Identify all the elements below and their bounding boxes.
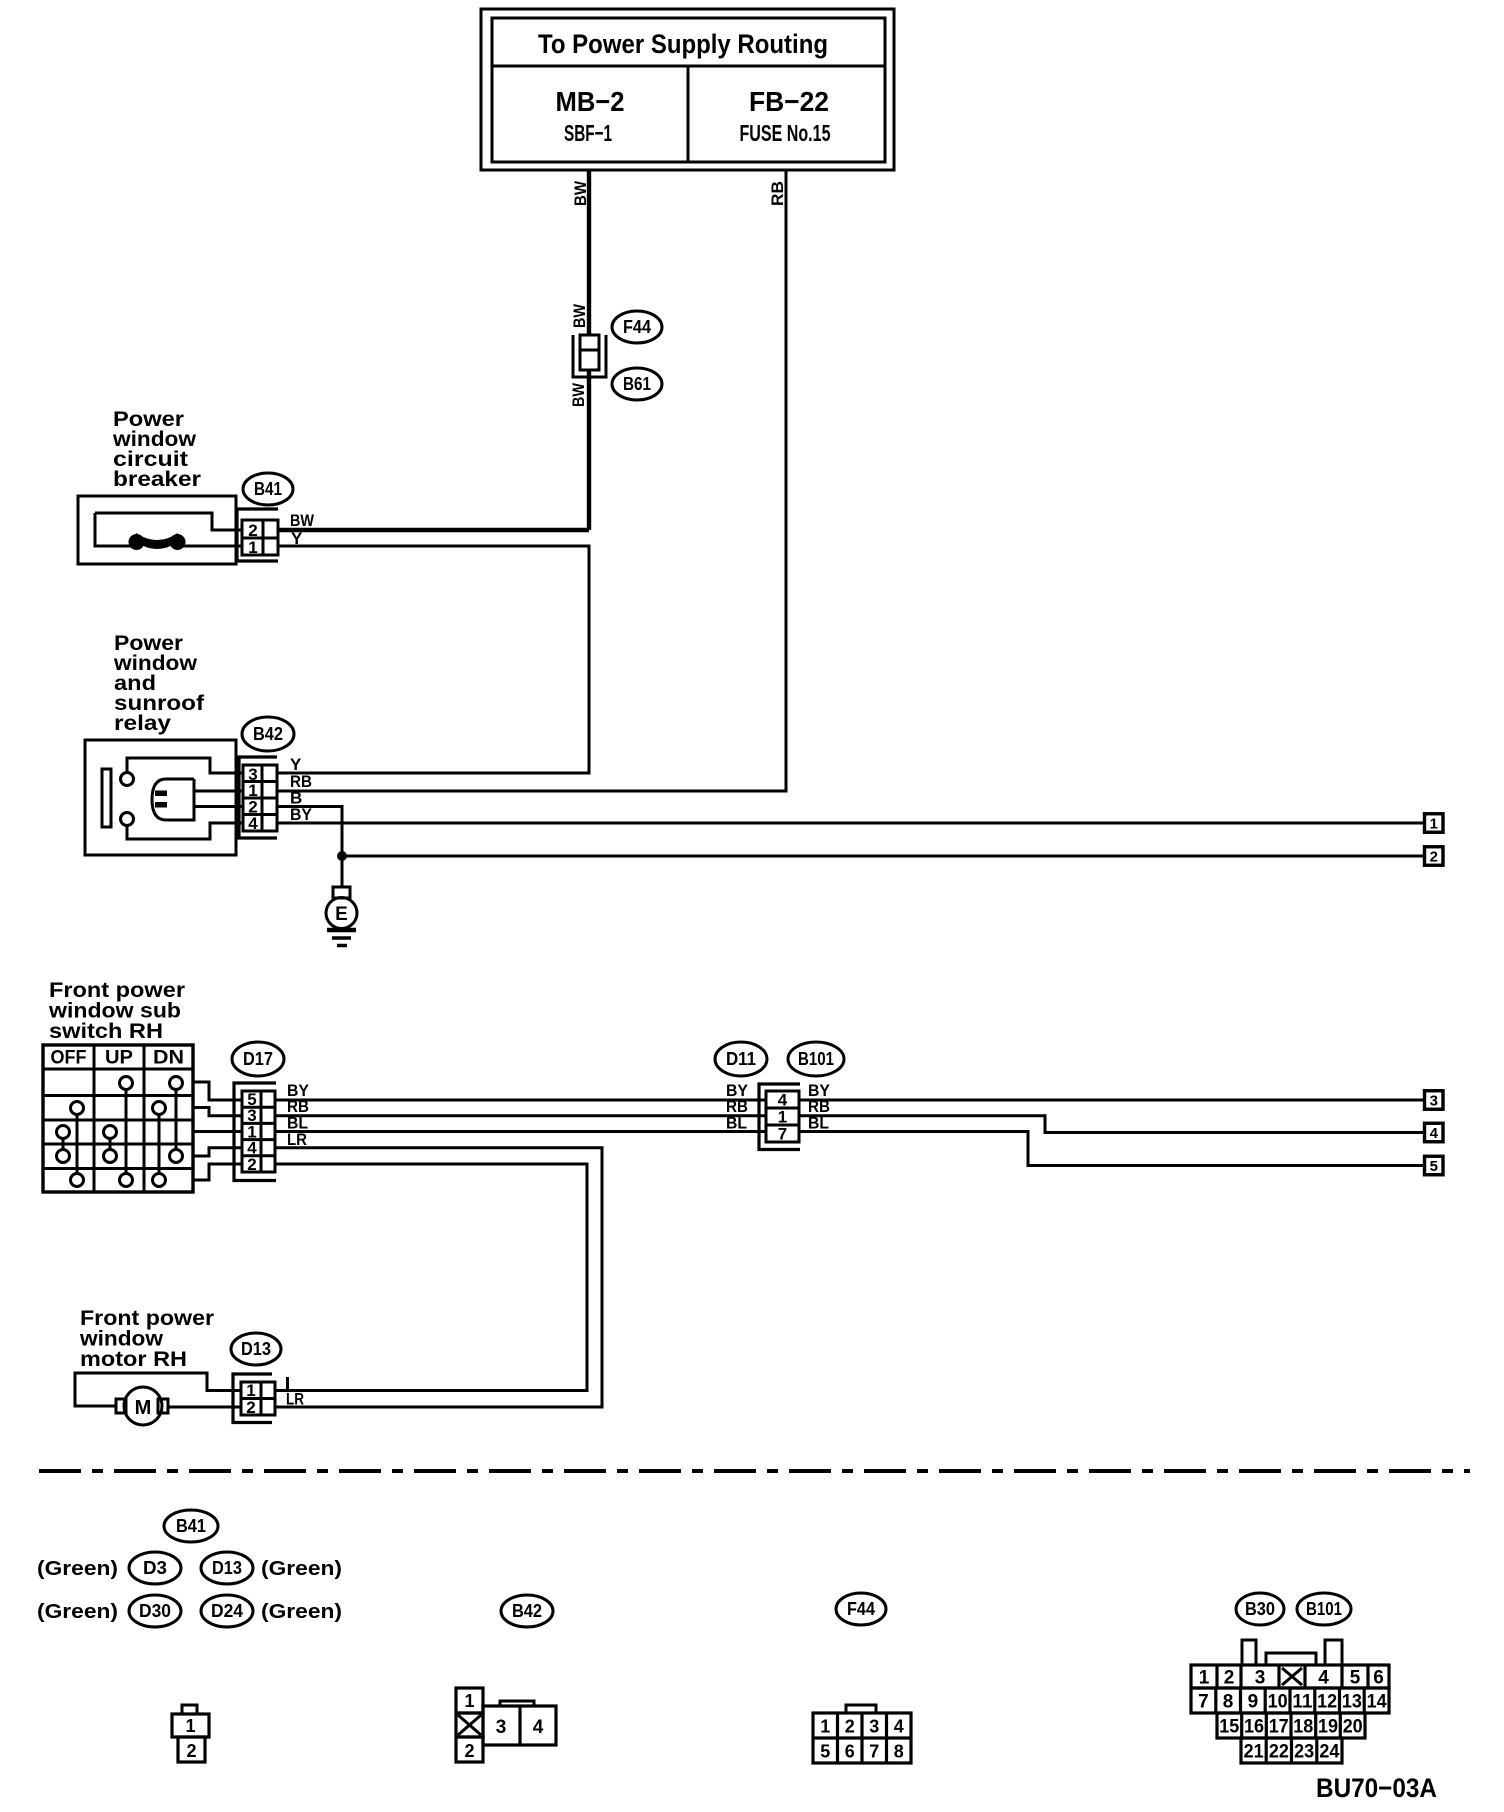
svg-text:6: 6 [1373, 1668, 1384, 1689]
svg-text:(Green): (Green) [261, 1601, 342, 1623]
svg-text:D17: D17 [243, 1049, 273, 1069]
svg-text:MB−2: MB−2 [556, 86, 625, 117]
svg-text:(Green): (Green) [37, 1558, 118, 1580]
svg-text:OFF: OFF [51, 1048, 87, 1069]
svg-text:16: 16 [1244, 1717, 1264, 1738]
svg-text:1: 1 [464, 1691, 474, 1711]
svg-text:7: 7 [869, 1742, 879, 1762]
svg-text:D13: D13 [241, 1339, 271, 1359]
svg-text:1: 1 [248, 538, 257, 557]
svg-text:8: 8 [1223, 1692, 1234, 1713]
svg-text:1: 1 [820, 1717, 830, 1737]
svg-text:19: 19 [1318, 1717, 1338, 1738]
svg-text:switch RH: switch RH [49, 1020, 163, 1043]
svg-text:22: 22 [1269, 1742, 1289, 1763]
svg-text:10: 10 [1268, 1692, 1288, 1713]
svg-text:15: 15 [1219, 1717, 1239, 1738]
svg-text:2: 2 [1430, 848, 1438, 865]
svg-text:8: 8 [894, 1742, 904, 1762]
svg-text:B41: B41 [176, 1516, 206, 1536]
svg-text:B42: B42 [512, 1601, 542, 1621]
svg-text:5: 5 [820, 1742, 830, 1762]
svg-text:9: 9 [1248, 1692, 1259, 1713]
svg-text:2: 2 [186, 1741, 196, 1761]
svg-text:relay: relay [114, 712, 171, 735]
svg-text:1: 1 [185, 1716, 195, 1736]
svg-text:5: 5 [1430, 1158, 1438, 1175]
svg-text:2: 2 [1224, 1668, 1235, 1689]
svg-text:BL: BL [808, 1114, 829, 1133]
svg-text:23: 23 [1294, 1742, 1314, 1763]
svg-text:F44: F44 [847, 1599, 875, 1619]
svg-text:SBF−1: SBF−1 [564, 120, 612, 146]
svg-text:BW: BW [570, 303, 589, 328]
svg-text:4: 4 [248, 814, 258, 833]
svg-text:M: M [135, 1397, 152, 1419]
svg-text:12: 12 [1317, 1692, 1337, 1713]
svg-text:FB−22: FB−22 [749, 86, 829, 117]
svg-text:3: 3 [1430, 1092, 1438, 1109]
svg-text:BU70−03A: BU70−03A [1316, 1773, 1437, 1803]
svg-text:21: 21 [1244, 1742, 1264, 1763]
svg-text:B30: B30 [1245, 1599, 1275, 1619]
svg-text:18: 18 [1293, 1717, 1313, 1738]
svg-text:20: 20 [1343, 1717, 1363, 1738]
svg-text:BW: BW [571, 180, 590, 206]
svg-text:4: 4 [1430, 1125, 1439, 1142]
svg-text:14: 14 [1367, 1692, 1387, 1713]
svg-text:2: 2 [464, 1741, 474, 1761]
svg-text:7: 7 [778, 1125, 787, 1144]
svg-text:DN: DN [153, 1048, 184, 1069]
svg-text:3: 3 [869, 1717, 879, 1737]
svg-text:D30: D30 [139, 1601, 171, 1621]
svg-text:7: 7 [1198, 1692, 1209, 1713]
svg-text:BW: BW [569, 382, 588, 407]
svg-text:BW: BW [290, 511, 315, 530]
svg-text:B101: B101 [1306, 1599, 1342, 1619]
svg-text:1: 1 [1199, 1668, 1210, 1689]
svg-text:3: 3 [496, 1717, 507, 1738]
svg-text:D3: D3 [143, 1558, 167, 1578]
svg-text:5: 5 [1350, 1668, 1361, 1689]
svg-text:B101: B101 [798, 1049, 834, 1069]
svg-text:B41: B41 [254, 479, 282, 499]
svg-text:(Green): (Green) [261, 1558, 342, 1580]
svg-text:F44: F44 [623, 317, 651, 337]
svg-text:11: 11 [1292, 1692, 1312, 1713]
svg-text:(Green): (Green) [37, 1601, 118, 1623]
svg-text:D11: D11 [726, 1049, 756, 1069]
svg-text:2: 2 [247, 1155, 256, 1174]
svg-text:4: 4 [894, 1717, 904, 1737]
svg-text:3: 3 [1255, 1668, 1266, 1689]
svg-text:motor RH: motor RH [80, 1348, 187, 1371]
svg-text:4: 4 [533, 1717, 544, 1738]
svg-text:D24: D24 [211, 1601, 243, 1621]
svg-text:2: 2 [246, 1398, 255, 1417]
svg-text:B61: B61 [623, 374, 651, 394]
svg-text:1: 1 [1430, 815, 1438, 832]
svg-text:UP: UP [105, 1048, 133, 1069]
svg-text:LR: LR [286, 1390, 304, 1409]
svg-text:FUSE No.15: FUSE No.15 [740, 120, 831, 146]
svg-text:BL: BL [726, 1114, 747, 1133]
svg-text:13: 13 [1342, 1692, 1362, 1713]
svg-text:24: 24 [1319, 1742, 1339, 1763]
svg-text:To Power Supply Routing: To Power Supply Routing [538, 29, 828, 59]
svg-text:4: 4 [1318, 1668, 1329, 1689]
svg-text:RB: RB [768, 181, 787, 206]
svg-text:D13: D13 [212, 1558, 242, 1578]
svg-text:6: 6 [845, 1742, 855, 1762]
svg-text:2: 2 [845, 1717, 855, 1737]
svg-text:breaker: breaker [113, 468, 201, 491]
svg-text:B42: B42 [253, 724, 283, 744]
svg-text:17: 17 [1269, 1717, 1289, 1738]
svg-text:E: E [335, 904, 348, 925]
